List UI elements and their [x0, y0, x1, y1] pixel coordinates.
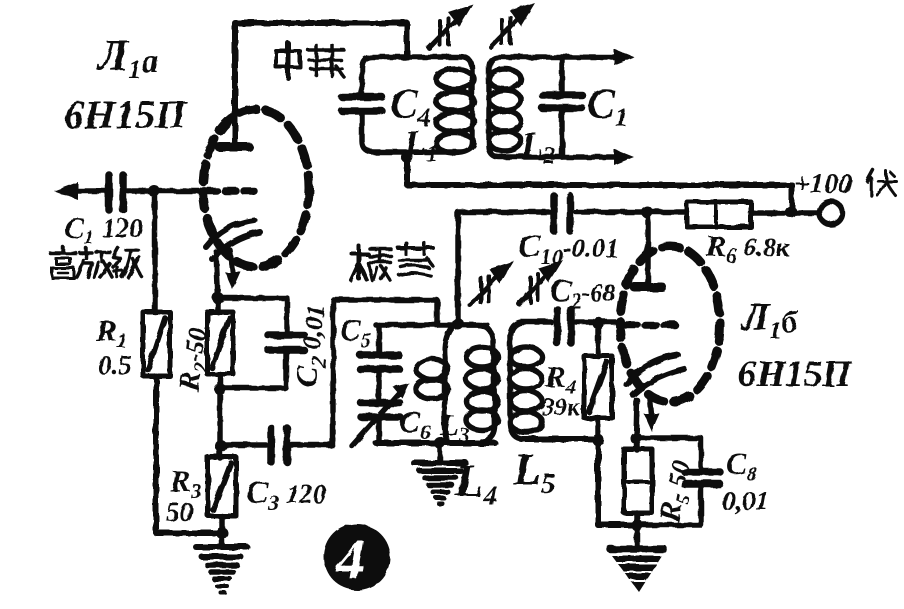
wire R4 node down to ground rail [598, 440, 637, 525]
resistor R4 [595, 323, 601, 440]
ground (left) [196, 547, 247, 592]
cathode lead wire Л1б [636, 400, 637, 438]
tube Л1a envelope [203, 109, 309, 267]
wire C10 line left segment down to oscillator node [458, 212, 551, 324]
adjustable core arrow C (above L4) [470, 261, 514, 305]
label 中频 [276, 43, 344, 78]
node ground rail [216, 527, 228, 539]
cathode of Л1б arcs [626, 355, 678, 384]
tube Л1б envelope [620, 246, 720, 402]
capacitor C8 plates [685, 472, 720, 484]
svg-text:C10-0.01: C10-0.01 [518, 228, 619, 269]
arrow right bottom [614, 149, 634, 165]
coil winding inner (tank A left winding) [444, 327, 452, 441]
ground (right) [610, 549, 664, 592]
capacitor C5 branch [376, 325, 382, 443]
resistor R6 [687, 202, 751, 227]
wire B+ line from L1 bottom to +100V corner [407, 157, 792, 212]
coil L5 left edge of tank B [510, 322, 523, 439]
svg-text:6Н15П: 6Н15П [738, 354, 852, 395]
capacitor C3 plates [271, 428, 287, 462]
capacitor C10 plates [554, 196, 570, 231]
wire oscillator tank top rail [376, 322, 487, 328]
wire R2 bottom to R3 top [217, 374, 223, 458]
grid of Л1a [206, 187, 254, 195]
adjustable core arrow A (above L1) [429, 4, 473, 48]
cathode arrow Л1б [650, 399, 652, 420]
svg-text:4: 4 [335, 527, 365, 592]
cathode arrow [230, 250, 233, 278]
IF tank box C4/L1 outline [362, 57, 472, 152]
wire C10 to R6 [576, 209, 687, 215]
node tank A top [452, 318, 464, 330]
resistor R5 [634, 438, 640, 548]
capacitor C2 plates [268, 335, 304, 350]
label 振荡 [351, 243, 433, 280]
resistor R2 [207, 312, 233, 374]
node cathode2 [630, 432, 642, 444]
resistor R3 [208, 457, 236, 516]
capacitor C1 (IF) branch [559, 57, 565, 157]
figure number emblem 4 [324, 524, 390, 590]
C6 adjust arrow [352, 392, 400, 446]
svg-text:120: 120 [102, 213, 143, 243]
resistor R1 [143, 312, 170, 376]
svg-text:0,01: 0,01 [722, 486, 769, 516]
label 高放级 [50, 247, 142, 278]
adjustable core arrow B (above L2) [491, 3, 535, 47]
terminal +100V circle [820, 202, 843, 225]
coil L4 right edge of tank A [458, 325, 495, 441]
svg-text:0.5: 0.5 [98, 350, 132, 380]
node C10/R6/plate junction [641, 206, 653, 218]
node at L1 bottom [401, 151, 413, 163]
svg-text:50: 50 [166, 497, 194, 527]
node cathode junction [212, 292, 224, 304]
wire C2 bottom to R2/R3 junction [220, 353, 286, 388]
node C3 junction [215, 440, 227, 452]
cathode lead wire [216, 252, 218, 298]
node grid junction [148, 185, 160, 197]
capacitor C4 plates [342, 97, 382, 111]
wire grid of Л1a with input arrow [66, 188, 206, 194]
wire C3 to oscillator tank top [221, 300, 437, 445]
svg-text:39к: 39к [541, 394, 581, 421]
node R4 bottom [592, 434, 604, 446]
coil L1 loops [436, 69, 474, 153]
node R2/C2 junction [214, 383, 226, 395]
wire cathode2 to C8 [636, 438, 701, 469]
node grid2 [592, 317, 604, 329]
capacitor C1 (input 120) plates [109, 175, 123, 210]
svg-text:+100: +100 [794, 169, 852, 200]
node at +100V corner [785, 206, 797, 218]
wire plate lead of tube Л1б [645, 212, 651, 282]
coil L2 loops [489, 69, 521, 151]
wire R1 bottom to ground rail [156, 376, 222, 533]
svg-text:6Н15П: 6Н15П [64, 92, 188, 137]
plate of Л1a [219, 143, 249, 152]
cathode of Л1a arcs [206, 220, 254, 247]
capacitor C6 variable plates [361, 403, 400, 417]
capacitor C2-68 plates [557, 309, 571, 343]
wire R6 to terminal [751, 210, 818, 216]
wire cathode node to C2 [218, 298, 287, 332]
arrow right top [614, 49, 634, 65]
wire plate of tube Л1a up and over to IF tank [235, 23, 407, 147]
wire tank A bottom rail [376, 440, 495, 446]
wire down to R1 [152, 191, 158, 312]
wire tank B bottom rail [521, 436, 598, 442]
plate of Л1б [634, 283, 662, 292]
grid of Л1б [626, 321, 676, 329]
ground stub tank A [437, 443, 443, 461]
wire tank B top rail with C2-68 [521, 319, 620, 325]
adjustable core arrow D (above L5) [519, 260, 563, 304]
ground (middle) [414, 463, 466, 503]
wire C8 bottom / R5 bottom rail [598, 487, 701, 525]
node R5 bottom [631, 519, 643, 531]
IF tank L2/C1 outline with output wires [489, 57, 618, 157]
